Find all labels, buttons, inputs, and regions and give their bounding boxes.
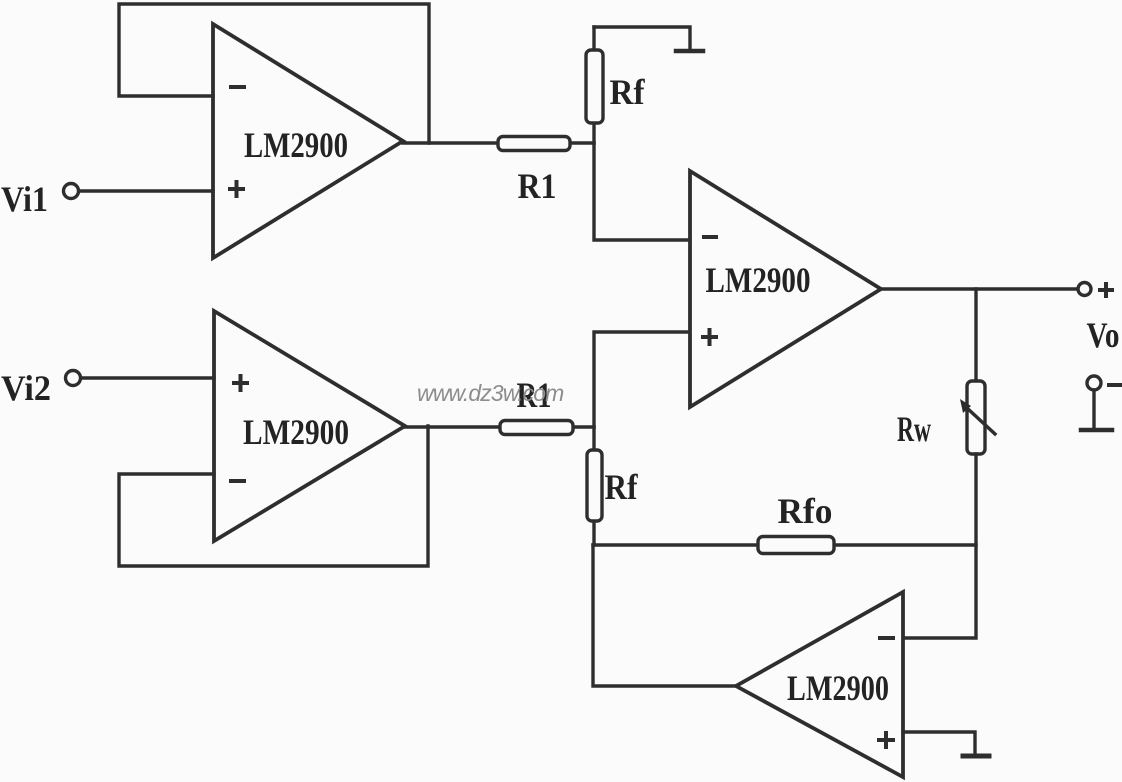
terminal Vi2 [1, 368, 81, 408]
svg-text:Rf: Rf [605, 467, 639, 507]
wire U2 output [405, 425, 594, 428]
svg-text:Rf: Rf [610, 72, 646, 112]
wire R1/Rf node to U3 inverting input [594, 143, 690, 240]
resistor Rfo [593, 491, 976, 554]
wire U1 output [403, 141, 594, 144]
svg-text:LM2900: LM2900 [706, 260, 811, 300]
potentiometer Rw [897, 381, 995, 454]
ground (Vo minus) [1081, 390, 1112, 430]
op-amp U2 [214, 311, 405, 541]
wire U3 output [881, 287, 1078, 290]
op-amp U1 [213, 24, 403, 258]
terminal Vi1 [1, 179, 79, 219]
svg-text:Rw: Rw [897, 409, 931, 449]
wire U1 feedback loop [119, 4, 429, 143]
svg-text:Rfo: Rfo [778, 491, 833, 531]
svg-text:LM2900: LM2900 [787, 668, 889, 708]
resistor Rf (lower) [587, 427, 638, 545]
resistor Rf (upper) [586, 27, 645, 143]
resistor R1 (lower) [500, 375, 573, 435]
terminal Vo plus [1078, 282, 1120, 355]
svg-text:Vi2: Vi2 [1, 368, 51, 408]
svg-text:Vo: Vo [1087, 315, 1120, 355]
wire U2 feedback loop [119, 426, 428, 566]
wire U4 output to Rf/Rfo node [593, 545, 736, 686]
terminal Vo minus [1087, 376, 1122, 390]
svg-text:Vi1: Vi1 [1, 179, 48, 219]
svg-text:LM2900: LM2900 [243, 412, 349, 452]
wire U4 noninverting input to ground [903, 732, 975, 755]
wire Vi2 to U2 noninverting input [81, 376, 214, 379]
svg-text:LM2900: LM2900 [244, 125, 348, 165]
wire R1 lower node to U3 noninverting input [594, 332, 688, 427]
ground (top, via Rf) [594, 27, 703, 51]
wire Vi1 to U1 noninverting input [79, 189, 213, 192]
resistor R1 (upper) [498, 137, 570, 207]
op-amp U4 [736, 592, 903, 777]
op-amp U3 [690, 171, 881, 407]
wire output node to Rw [974, 289, 977, 381]
wire Rw bottom to U4 inverting input [903, 454, 976, 638]
svg-text:www.dz3w.com: www.dz3w.com [417, 380, 564, 406]
ground (U4 noninverting input) [963, 754, 989, 759]
svg-text:R1: R1 [518, 166, 557, 206]
